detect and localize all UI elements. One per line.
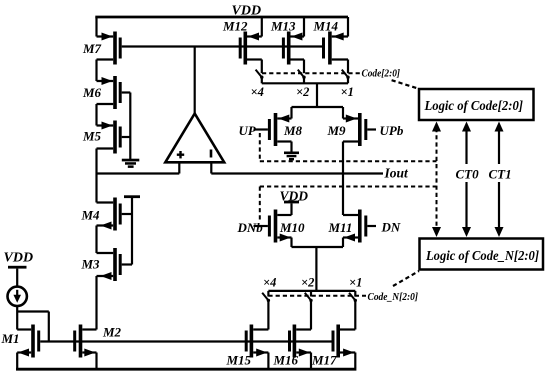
wire: M5 drain down to op-amp + node (95, 149, 97, 174)
svg-text:M5: M5 (82, 129, 102, 144)
transistor M13 (270, 17, 304, 73)
wire: gate bias rail (M7 gate, op-amp out, M12-M14 gates) (122, 45, 322, 47)
svg-text:M17: M17 (311, 353, 337, 368)
svg-text:×2: ×2 (301, 276, 314, 290)
Logic of Code[2:0] box (419, 89, 534, 120)
svg-text:Logic of Code_N[2:0]: Logic of Code_N[2:0] (425, 248, 539, 263)
wire: M8/M9 common source yoke (292, 107, 344, 119)
wire: M10/M11 drain yoke (292, 246, 344, 248)
Code[2:0] label (362, 68, 401, 80)
svg-text:DN: DN (381, 220, 401, 235)
wire: M4 source to M3 drain (95, 226, 97, 254)
switch x4 (top) (256, 70, 264, 84)
svg-text:VDD: VDD (4, 251, 34, 266)
svg-text:M4: M4 (81, 208, 101, 223)
transistor M11 (328, 210, 377, 248)
switch x1 (bottom) (349, 291, 357, 330)
svg-text:UP: UP (239, 123, 257, 138)
wire: op-amp - input / Iout line (211, 172, 383, 174)
transistor M3 (81, 248, 133, 281)
svg-text:M6: M6 (82, 85, 102, 100)
dashed vertical between logic boxes (436, 128, 438, 231)
VDD tap bar (middle) (284, 201, 299, 215)
svg-text:M3: M3 (81, 257, 101, 272)
arrowhead up into Logic of Code box (432, 122, 441, 132)
UPb label (380, 123, 404, 138)
svg-text:M12: M12 (222, 19, 248, 34)
svg-text:M7: M7 (82, 41, 102, 56)
svg-text:Logic of Code[2:0]: Logic of Code[2:0] (424, 98, 524, 113)
switch x2 (bottom) (305, 291, 313, 330)
switch x2 (top) (298, 70, 306, 84)
Logic of Code_N[2:0] box (420, 239, 544, 270)
transistor M14 (313, 17, 349, 73)
wire: M6/M5 gates down to ground (129, 93, 131, 160)
dashed: UP control from Logic of Code (260, 133, 437, 161)
ground rail (bottom) (16, 368, 356, 371)
wire: bus down to M8/M9 sources (316, 83, 318, 107)
op-amp U1 (165, 47, 224, 174)
switch x4 (bottom) (262, 291, 270, 330)
CT0 line with arrows (456, 122, 480, 238)
x4 x2 x1 labels (bottom) (263, 276, 362, 290)
VDD label (middle) (280, 189, 309, 204)
svg-text:CT0: CT0 (456, 167, 480, 182)
DNb label (237, 220, 264, 235)
svg-text:M16: M16 (273, 353, 299, 368)
transistor M6 (82, 76, 130, 109)
ground (M5/M6 gate bias) (122, 159, 140, 168)
current source I1 (8, 287, 27, 306)
svg-text:DNb: DNb (237, 220, 264, 235)
svg-text:M10: M10 (279, 220, 305, 235)
transistor M5 (82, 121, 130, 154)
wire: M7 drain to M6 source (95, 60, 97, 82)
svg-text:M11: M11 (328, 220, 353, 235)
bias bar (M3/M4 gate supply tap) (124, 195, 140, 264)
svg-text:CT1: CT1 (489, 167, 512, 182)
CT1 line with arrows (489, 122, 512, 238)
svg-text:Code[2:0]: Code[2:0] (362, 68, 401, 80)
transistor M1 (1, 325, 41, 358)
transistor M4 (81, 198, 133, 231)
svg-text:×4: ×4 (251, 85, 264, 99)
x4 x2 x1 labels (top) (251, 85, 354, 99)
svg-text:M14: M14 (313, 19, 339, 34)
wire: M9 drain down to M11 drain (output node) (342, 142, 344, 216)
dashed link label to Logic of Code_N box (393, 271, 419, 286)
wire: M1 source to ground rail (16, 353, 18, 369)
ground (M8 drain) (284, 152, 299, 161)
wire: + node down to M4 drain (95, 174, 97, 203)
svg-text:×1: ×1 (349, 276, 362, 290)
wire: gate line M1-M2-M15-M16-M17 (40, 340, 331, 342)
transistor M2 (73, 325, 121, 369)
switch x1 (top) (342, 70, 350, 84)
arrowhead down into Logic of Code_N box (432, 227, 441, 237)
svg-text:M9: M9 (327, 123, 347, 138)
svg-text:Code_N[2:0]: Code_N[2:0] (368, 291, 419, 303)
wire: lower switch bus (268, 290, 355, 292)
wire: top switch bus (262, 82, 348, 84)
dashed link label to Logic box (392, 80, 418, 88)
svg-text:M2: M2 (102, 325, 122, 340)
transistor M10 (254, 210, 306, 248)
svg-text:M13: M13 (270, 19, 296, 34)
transistor M7 (82, 32, 122, 65)
svg-text:×2: ×2 (296, 85, 309, 99)
VDD label (top) (232, 4, 262, 19)
svg-text:M8: M8 (283, 123, 303, 138)
DN label (381, 220, 401, 235)
transistor M12 (222, 17, 262, 73)
Code_N[2:0] label (368, 291, 419, 303)
svg-text:M1: M1 (1, 331, 20, 346)
wire: M6 drain to M5 source (95, 104, 97, 126)
transistor M15 (226, 325, 269, 369)
svg-text:UPb: UPb (380, 123, 404, 138)
wire: VDD rail down to M7 source (95, 17, 97, 37)
transistor M9 (327, 113, 377, 146)
UP label (239, 123, 257, 138)
Code_N[2:0] dashed control line (268, 295, 366, 297)
transistor M8 (254, 113, 303, 152)
wire: yoke down to lower switch bus (315, 247, 317, 291)
svg-text:×1: ×1 (341, 85, 354, 99)
dashed: DNb control from Logic of Code_N (260, 187, 437, 222)
transistor M17 (311, 325, 355, 369)
svg-text:M15: M15 (226, 353, 252, 368)
wire: current source to M1 drain/gate (17, 306, 49, 342)
VDD label (left) (4, 251, 34, 266)
VDD tap bar (left) (8, 266, 27, 287)
Code[2:0] dashed control line (262, 72, 360, 74)
Iout label (384, 166, 410, 181)
svg-text:Iout: Iout (384, 166, 410, 181)
VDD rail (top) (95, 16, 348, 19)
wire: M3 source down to M2 drain (95, 276, 97, 330)
transistor M16 (273, 325, 312, 369)
svg-text:×4: ×4 (263, 276, 276, 290)
wire: op-amp + input node (left, to cascode node) (97, 172, 180, 174)
